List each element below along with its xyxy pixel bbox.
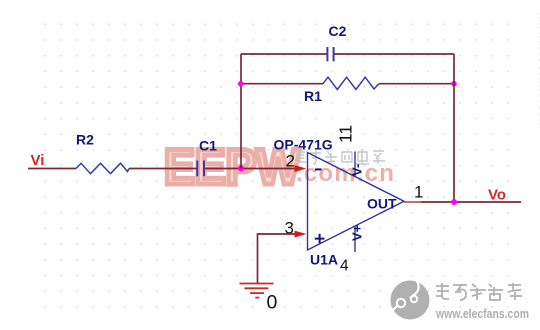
svg-text:C2: C2: [329, 23, 347, 39]
pin 2 red arrow: [295, 165, 307, 172]
svg-text:.com.cn: .com.cn: [296, 160, 395, 187]
pin 4 stub V+: [354, 226, 356, 252]
svg-text:0: 0: [267, 292, 278, 314]
wire C2 branch top right: [334, 53, 454, 55]
junction node B left of R1: [238, 81, 244, 87]
svg-text:4: 4: [340, 258, 349, 275]
svg-text:R1: R1: [304, 88, 322, 104]
svg-text:R2: R2: [76, 132, 94, 148]
wire output to Vo: [421, 201, 521, 203]
svg-text:Vi: Vi: [31, 152, 45, 169]
svg-text:11: 11: [336, 125, 356, 143]
svg-text:www.elecfans.com: www.elecfans.com: [537, 11, 540, 130]
grid dots background: [38, 17, 516, 309]
plus sign non-inverting input: [315, 234, 325, 244]
svg-text:V+: V+: [350, 224, 365, 241]
wire R1 branch left: [241, 83, 323, 85]
capacitor C1: [197, 161, 204, 177]
pin 11 stub V-: [354, 152, 356, 177]
minus sign inverting input: [315, 168, 322, 170]
watermark gray chinese text 电子产品世界: [295, 149, 385, 164]
ground symbol: [240, 284, 274, 298]
pin 1 output stub: [404, 201, 421, 203]
junction node A: [238, 165, 244, 171]
op-amp U1A triangle: [308, 153, 405, 251]
svg-text:V-: V-: [350, 164, 365, 176]
watermark EEPW logo text: [164, 139, 301, 195]
wire C1 to op-amp pin 2: [204, 168, 296, 170]
capacitor C2: [327, 47, 333, 61]
svg-text:Vo: Vo: [488, 187, 506, 204]
pin 3 red arrow: [295, 231, 307, 238]
svg-text:OP-471G: OP-471G: [274, 137, 333, 153]
svg-text:OUT: OUT: [367, 196, 397, 212]
junction node D output: [451, 199, 457, 205]
watermark gray chinese text 电子发烧友: [436, 283, 522, 300]
wire feedback vertical left: [240, 54, 242, 168]
svg-text:www.elecfans.com: www.elecfans.com: [435, 307, 529, 321]
wire R1 branch right: [379, 83, 454, 85]
wire Vi input to R2: [28, 168, 76, 170]
watermark elecfans circle logo: [389, 281, 430, 320]
svg-text:1: 1: [414, 183, 423, 202]
svg-text:C1: C1: [199, 138, 217, 154]
resistor R2: [76, 163, 129, 173]
svg-text:2: 2: [286, 152, 295, 171]
wire C2 branch top left: [241, 53, 327, 55]
svg-text:U1A: U1A: [310, 252, 338, 268]
wire feedback vertical right: [453, 54, 455, 202]
resistor R1: [323, 77, 379, 89]
wire ground to pin 3: [258, 234, 297, 284]
junction node C right of R1: [451, 81, 457, 87]
wire R2 to C1: [129, 168, 197, 170]
